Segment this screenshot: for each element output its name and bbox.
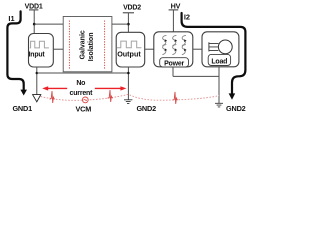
- svg-text:I1: I1: [8, 14, 14, 23]
- load label plate: [208, 54, 230, 65]
- svg-text:Load: Load: [211, 58, 227, 65]
- power label plate: [160, 58, 189, 67]
- load block: [202, 32, 239, 67]
- wire load ground stem: [218, 67, 220, 103]
- power switch Q6: [182, 45, 187, 55]
- svg-text:No: No: [76, 80, 85, 87]
- input block: [29, 34, 54, 68]
- input waveform icon: [30, 41, 49, 48]
- wire input to isolation: [53, 48, 63, 50]
- I2 arrowhead: [229, 93, 236, 99]
- svg-text:VCM: VCM: [75, 104, 91, 113]
- wire GND2 stem: [127, 67, 129, 100]
- wire output to power: [145, 48, 154, 50]
- galvanic isolation barrier box: [63, 17, 112, 72]
- load motor circle icon: [218, 40, 232, 54]
- power switch Q2: [172, 35, 177, 45]
- GND1 symbol (open triangle): [33, 95, 41, 102]
- node VDD2 junction: [127, 23, 130, 26]
- power switch Q5: [172, 45, 177, 55]
- wire VDD2 stem: [127, 13, 129, 33]
- VDD2 terminal tick: [123, 12, 134, 14]
- svg-text:Output: Output: [117, 50, 141, 59]
- svg-text:VDD1: VDD1: [25, 3, 43, 10]
- svg-text:I2: I2: [184, 13, 190, 22]
- node VDD1 junction: [33, 23, 36, 26]
- noise spike 2: [108, 90, 113, 102]
- power switch Q1: [162, 35, 167, 45]
- svg-text:GND1: GND1: [12, 104, 32, 113]
- isolation barrier red dashed line (left): [68, 21, 70, 70]
- isolation barrier red dashed line (right): [104, 21, 106, 70]
- svg-text:Power: Power: [164, 60, 184, 67]
- wire power to load: [193, 48, 202, 50]
- galvanic isolation label: [79, 30, 95, 61]
- earth ground symbol (right): [215, 103, 223, 107]
- output waveform icon: [117, 41, 142, 48]
- svg-text:Galvanic: Galvanic: [79, 30, 86, 59]
- wire VDD1 stem: [33, 10, 35, 34]
- I1 arrowhead: [20, 90, 27, 96]
- svg-text:Input: Input: [29, 51, 46, 58]
- svg-text:GND2: GND2: [226, 104, 246, 113]
- svg-text:current: current: [70, 90, 94, 97]
- VCM source circle: [82, 97, 88, 103]
- bottom ground rail: [173, 75, 219, 77]
- node GND1 junction: [36, 72, 39, 75]
- no-current arrowhead left: [42, 86, 48, 90]
- noise spike 3: [173, 92, 178, 104]
- output block: [116, 32, 145, 67]
- VDD1 terminal tick: [29, 9, 38, 11]
- svg-text:Isolation: Isolation: [88, 33, 95, 62]
- common-mode noise dashed path: [41, 94, 220, 100]
- wire GND1 stem: [36, 67, 38, 94]
- svg-text:GND2: GND2: [136, 104, 156, 113]
- noise spike 1: [50, 91, 55, 103]
- I2 current path: [182, 13, 246, 94]
- wire HV stem: [172, 10, 174, 32]
- svg-text:VDD2: VDD2: [123, 5, 141, 12]
- ground return wire under barrier: [37, 72, 129, 74]
- power switch Q4: [162, 45, 167, 55]
- wire power ground stem: [172, 67, 174, 77]
- no-current arrow left segment: [47, 87, 67, 89]
- no-current arrowhead right: [120, 86, 126, 90]
- HV terminal tick: [169, 9, 179, 11]
- wire VDD1 junction to isolation barrier: [34, 23, 63, 25]
- load winding icon: [209, 42, 219, 51]
- svg-text:HV: HV: [171, 2, 181, 11]
- node GND2 junction: [127, 72, 130, 75]
- power block: [154, 32, 193, 67]
- I1 current path: [7, 11, 23, 90]
- power switch Q3: [182, 35, 187, 45]
- wire isolation barrier to VDD2 junction: [112, 23, 128, 25]
- VCM source tilde: [84, 99, 87, 100]
- GND2 earth symbol (middle): [124, 100, 132, 104]
- no-current arrow right segment: [95, 87, 121, 89]
